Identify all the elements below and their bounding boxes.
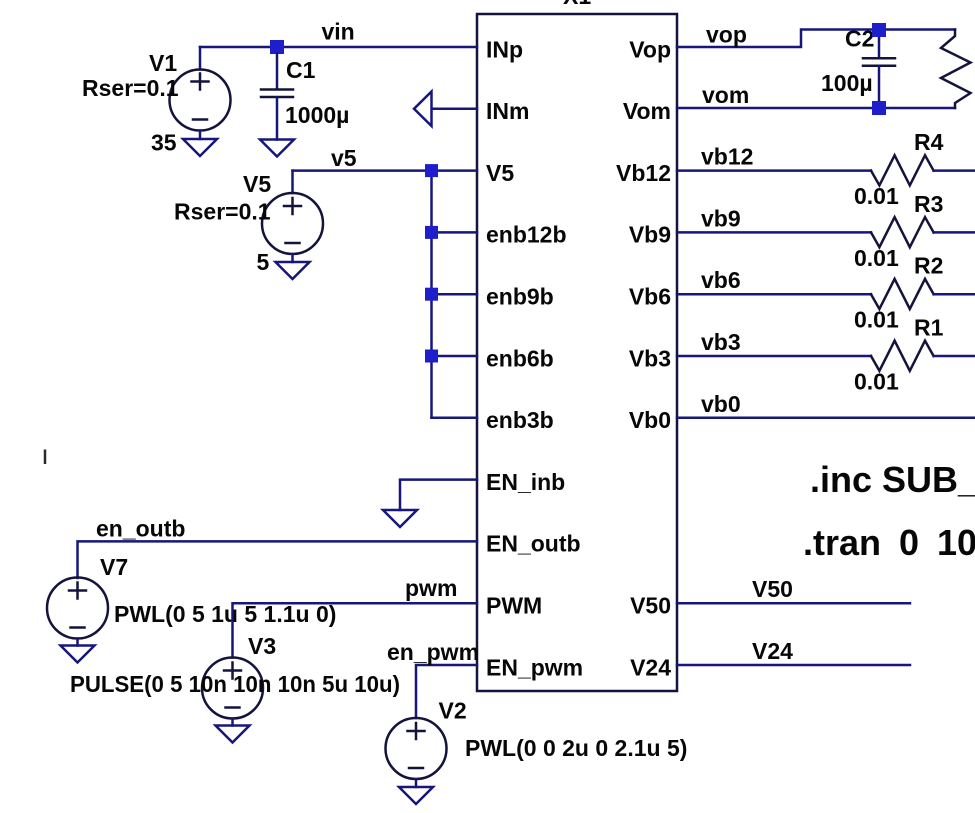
wire vb6 right of R2 <box>934 293 975 296</box>
svg-text:X1: X1 <box>563 0 591 9</box>
svg-text:100µ: 100µ <box>821 70 873 96</box>
svg-text:PWL(0 5 1u 5 1.1u 0): PWL(0 5 1u 5 1.1u 0) <box>114 601 336 627</box>
svg-text:EN_outb: EN_outb <box>486 531 581 557</box>
svg-text:0.01: 0.01 <box>854 307 899 333</box>
svg-text:enb3b: enb3b <box>486 407 554 433</box>
wire vb0: Vb0 pin to right edge <box>677 417 975 420</box>
junction bus/enb12b <box>425 226 438 239</box>
svg-text:0.01: 0.01 <box>854 245 899 271</box>
svg-text:Rser=0.1: Rser=0.1 <box>174 199 271 225</box>
resistor R3 <box>871 217 934 247</box>
svg-text:0.01: 0.01 <box>854 369 899 395</box>
svg-text:C2: C2 <box>845 26 874 52</box>
wire bus to enb3b pin <box>432 417 478 420</box>
wire en_outb: V7 to EN_outb pin <box>78 541 478 578</box>
svg-text:vb0: vb0 <box>701 391 741 417</box>
voltage source V5 <box>262 193 323 254</box>
svg-text:.tran: .tran <box>803 522 881 563</box>
svg-text:en_pwm: en_pwm <box>387 639 479 665</box>
svg-text:V50: V50 <box>752 576 793 602</box>
wire v5: V5 top to V5 pin <box>293 169 478 172</box>
resistor R2 <box>871 279 934 309</box>
voltage source V1 <box>170 70 231 131</box>
svg-text:V1: V1 <box>149 50 177 76</box>
svg-text:EN_pwm: EN_pwm <box>486 654 583 680</box>
ground (V2) <box>399 787 433 804</box>
svg-text:V24: V24 <box>752 638 793 664</box>
svg-text:PWL(0 0 2u 0 2.1u 5): PWL(0 0 2u 0 2.1u 5) <box>465 735 687 761</box>
wire vb9: Vb9 pin to R3 <box>677 231 871 234</box>
wire v5 bus vertical <box>430 171 433 418</box>
svg-text:R3: R3 <box>914 191 943 217</box>
wire V3 bottom stub <box>231 719 234 726</box>
ground (C1) <box>260 140 294 157</box>
wire V1 top stub <box>199 47 202 70</box>
junction vin/C1 <box>270 40 284 54</box>
voltage source V2 <box>386 718 447 779</box>
wire V50 net <box>677 602 910 605</box>
wire vom: Vom pin to C2/RL bottom <box>677 107 955 110</box>
svg-text:10u 1u: 10u 1u <box>937 522 975 563</box>
junction bus/enb9b <box>425 288 438 301</box>
wire bus to enb6b pin <box>432 355 478 358</box>
svg-text:V7: V7 <box>100 554 128 580</box>
wire EN_inb to ground <box>400 480 477 510</box>
svg-text:vop: vop <box>706 22 747 48</box>
svg-text:Rser=0.1: Rser=0.1 <box>82 75 179 101</box>
junction vom/C2 <box>872 101 886 115</box>
voltage source V3 <box>202 658 263 719</box>
ground (EN_inb) <box>383 510 417 527</box>
svg-text:EN_inb: EN_inb <box>486 469 565 495</box>
svg-text:0.01: 0.01 <box>854 183 899 209</box>
svg-text:1000µ: 1000µ <box>285 102 349 128</box>
svg-text:vin: vin <box>322 19 355 45</box>
svg-text:R2: R2 <box>914 253 943 279</box>
resistor R1 <box>871 341 934 371</box>
svg-text:R1: R1 <box>914 315 944 341</box>
ground (V3) <box>216 726 250 743</box>
load resistor (right edge, vertical) <box>941 30 971 109</box>
svg-text:Vb6: Vb6 <box>629 284 671 310</box>
svg-text:vb12: vb12 <box>701 144 753 170</box>
svg-text:R4: R4 <box>914 129 944 155</box>
text cursor tick <box>44 450 47 465</box>
ground (V1) <box>183 139 217 156</box>
svg-text:INp: INp <box>486 36 523 62</box>
voltage source V7 <box>47 578 108 639</box>
svg-text:V5: V5 <box>486 160 514 186</box>
svg-text:vb6: vb6 <box>701 267 741 293</box>
svg-text:INm: INm <box>486 98 529 124</box>
wire V24 net <box>677 664 910 667</box>
input arrow (INm) <box>414 92 432 127</box>
wire vb9 right of R3 <box>934 231 975 234</box>
wire vb3 right of R1 <box>934 355 975 358</box>
svg-text:Vom: Vom <box>623 98 671 124</box>
svg-text:35: 35 <box>151 130 177 156</box>
svg-text:vom: vom <box>702 82 749 108</box>
wire pwm: V3 to PWM pin <box>233 603 478 657</box>
wire vb6: Vb6 pin to R2 <box>677 293 871 296</box>
wire vin: V1 top to INp pin <box>200 46 477 49</box>
svg-text:PWM: PWM <box>486 593 542 619</box>
junction bus/v5 <box>425 164 438 177</box>
wire vb3: Vb3 pin to R1 <box>677 355 871 358</box>
svg-text:.inc SUB_M: .inc SUB_M <box>810 459 975 500</box>
svg-text:Vb12: Vb12 <box>616 160 671 186</box>
ground (V5) <box>276 262 310 279</box>
svg-text:V5: V5 <box>243 171 271 197</box>
svg-text:enb6b: enb6b <box>486 345 554 371</box>
svg-text:0: 0 <box>899 522 919 563</box>
svg-text:Vb0: Vb0 <box>629 407 671 433</box>
svg-text:enb12b: enb12b <box>486 222 567 248</box>
svg-text:V24: V24 <box>630 654 671 680</box>
wire V7 bottom stub <box>76 639 79 646</box>
wire bus to enb9b pin <box>432 293 478 296</box>
ground (V7) <box>61 646 95 663</box>
svg-text:V50: V50 <box>630 593 671 619</box>
wire V2 bottom stub <box>415 779 418 787</box>
svg-text:Vb3: Vb3 <box>629 345 671 371</box>
wire V1 bottom stub <box>199 131 202 140</box>
svg-text:vb3: vb3 <box>701 329 741 355</box>
svg-text:V2: V2 <box>439 698 467 724</box>
svg-text:en_outb: en_outb <box>96 516 185 542</box>
junction bus/enb6b <box>425 350 438 363</box>
svg-text:enb9b: enb9b <box>486 284 554 310</box>
capacitor C1 <box>261 53 293 140</box>
svg-text:5: 5 <box>257 249 270 275</box>
svg-text:V3: V3 <box>248 633 276 659</box>
svg-text:pwm: pwm <box>405 575 457 601</box>
capacitor C2 <box>863 33 895 104</box>
svg-text:PULSE(0 5 10n 10n 10n 5u 10u): PULSE(0 5 10n 10n 10n 5u 10u) <box>70 671 400 697</box>
wire en_pwm: V2 to EN_pwm pin <box>416 665 477 718</box>
wire bus to enb12b pin <box>432 231 478 234</box>
wire V5 top stub <box>291 171 294 193</box>
wire vb12: Vb12 pin to R4 <box>677 169 871 172</box>
svg-text:v5: v5 <box>331 145 357 171</box>
svg-text:C1: C1 <box>286 57 316 83</box>
subcircuit box X1 <box>477 14 677 691</box>
junction vop/C2 <box>872 23 886 37</box>
wire vop: Vop pin to C2/RL top <box>677 30 955 48</box>
wire vb12 right of R4 <box>934 169 975 172</box>
svg-text:Vop: Vop <box>629 36 671 62</box>
wire INm stub <box>433 108 477 111</box>
svg-text:Vb9: Vb9 <box>629 222 671 248</box>
svg-text:vb9: vb9 <box>701 205 741 231</box>
wire V5 bottom stub <box>291 254 294 262</box>
resistor R4 <box>871 155 934 185</box>
